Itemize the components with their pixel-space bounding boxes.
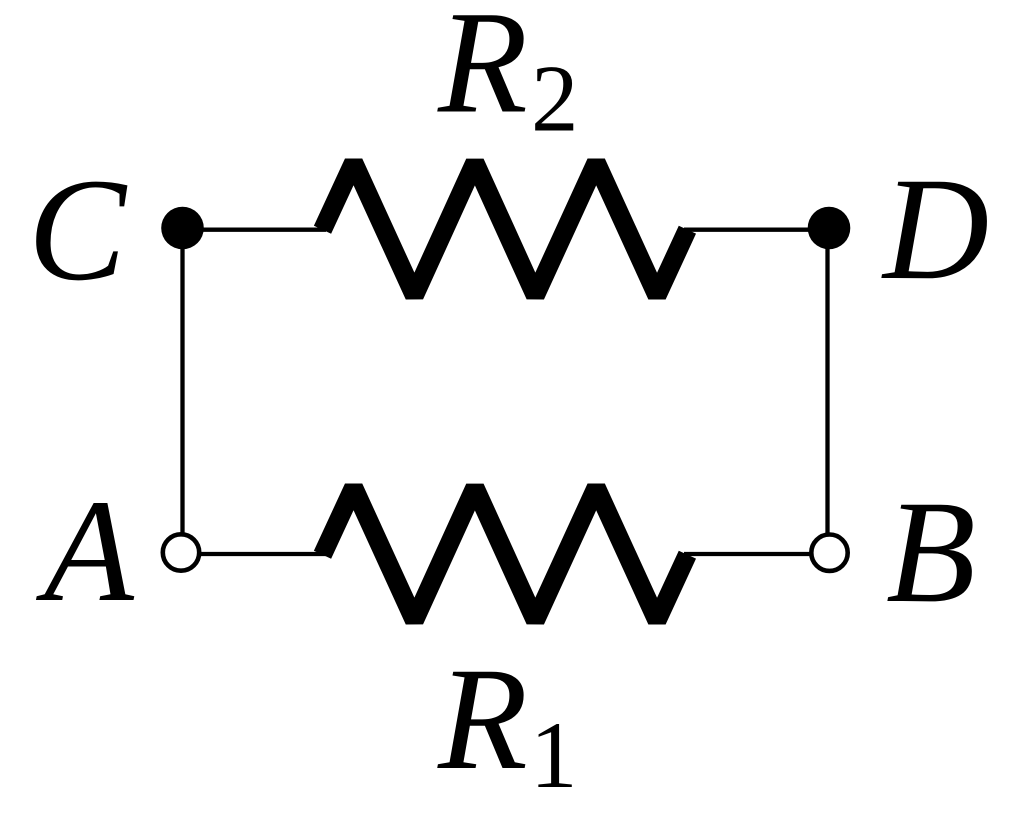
svg-text:R: R <box>437 637 528 800</box>
svg-text:R: R <box>437 0 528 144</box>
svg-text:D: D <box>881 147 989 310</box>
svg-text:1: 1 <box>530 702 578 808</box>
svg-text:C: C <box>28 148 128 311</box>
svg-text:B: B <box>886 470 976 633</box>
svg-text:2: 2 <box>531 46 579 152</box>
svg-text:A: A <box>35 469 135 632</box>
